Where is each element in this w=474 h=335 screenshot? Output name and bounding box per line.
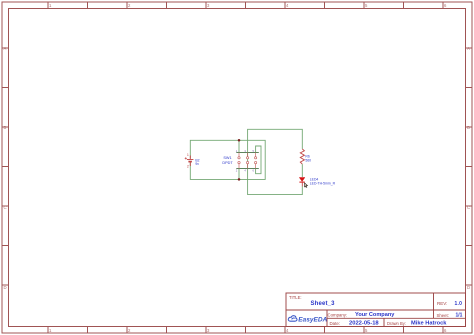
svg-text:4: 4 (286, 3, 289, 8)
svg-text:SW1: SW1 (223, 156, 231, 160)
svg-text:A: A (467, 46, 470, 51)
svg-text:B: B (467, 125, 470, 130)
svg-text:REV:: REV: (437, 301, 447, 306)
svg-text:5: 5 (365, 328, 368, 333)
svg-text:B: B (4, 125, 7, 130)
svg-text:1: 1 (49, 328, 52, 333)
svg-text:1: 1 (187, 153, 189, 157)
svg-text:LED-TH-5mm_R: LED-TH-5mm_R (310, 182, 336, 186)
svg-text:Mike Hatrock: Mike Hatrock (411, 321, 447, 327)
svg-text:1.0: 1.0 (455, 301, 463, 307)
svg-text:2022-05-18: 2022-05-18 (349, 321, 379, 327)
svg-text:3: 3 (207, 3, 210, 8)
svg-text:EasyEDA: EasyEDA (298, 316, 327, 323)
svg-text:DPDT: DPDT (222, 161, 233, 165)
svg-text:6: 6 (444, 3, 447, 8)
svg-text:1/1: 1/1 (456, 313, 463, 319)
svg-text:5: 5 (365, 3, 368, 8)
svg-text:Company:: Company: (328, 312, 348, 317)
svg-text:A: A (4, 46, 7, 51)
svg-text:Sheet_3: Sheet_3 (311, 301, 336, 307)
svg-text:C: C (467, 205, 470, 210)
svg-text:2: 2 (128, 328, 131, 333)
svg-text:4: 4 (286, 328, 289, 333)
svg-text:D: D (467, 285, 470, 290)
svg-text:Your Company: Your Company (355, 312, 395, 318)
svg-text:D: D (4, 285, 7, 290)
svg-text:Drawn By:: Drawn By: (387, 321, 406, 326)
svg-text:2: 2 (187, 164, 189, 168)
svg-text:2: 2 (128, 3, 131, 8)
svg-text:C: C (4, 205, 7, 210)
svg-text:Sheet:: Sheet: (437, 313, 449, 318)
svg-text:1: 1 (49, 3, 52, 8)
svg-text:Date:: Date: (330, 321, 341, 326)
svg-text:TITLE:: TITLE: (289, 295, 302, 300)
svg-text:9v: 9v (195, 162, 199, 166)
svg-text:6: 6 (444, 328, 447, 333)
svg-text:560: 560 (305, 158, 311, 162)
svg-text:3: 3 (207, 328, 210, 333)
